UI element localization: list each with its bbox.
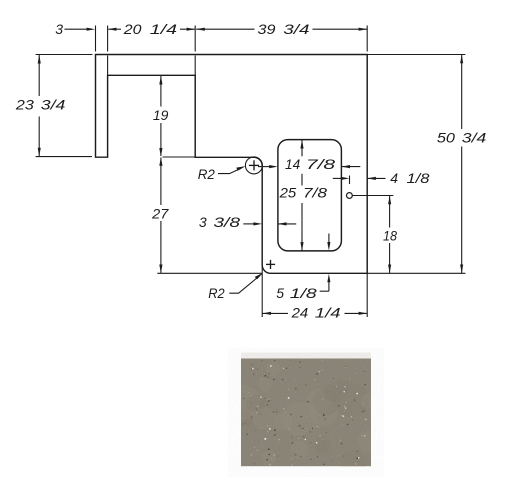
svg-text:39: 39 <box>258 21 276 37</box>
svg-text:1/4: 1/4 <box>150 21 177 37</box>
svg-text:1/8: 1/8 <box>290 285 317 301</box>
svg-text:1/4: 1/4 <box>315 305 341 321</box>
svg-text:R2: R2 <box>208 285 225 301</box>
dim 14 7/8 arrows <box>258 166 270 168</box>
svg-text:23: 23 <box>15 96 34 112</box>
dim 18 line and arrows <box>388 196 391 205</box>
material swatch <box>241 359 371 467</box>
svg-text:1/8: 1/8 <box>407 170 430 186</box>
svg-text:3: 3 <box>55 21 63 37</box>
dim 24 1/4 extension lines <box>261 266 263 317</box>
svg-text:50: 50 <box>437 130 455 146</box>
svg-text:27: 27 <box>151 205 169 221</box>
R2 fillet annotation circle <box>245 157 262 174</box>
svg-text:3/4: 3/4 <box>41 96 66 112</box>
svg-text:24: 24 <box>291 305 309 321</box>
svg-text:25: 25 <box>279 185 297 201</box>
dim 3 3/8 arrows <box>243 223 255 225</box>
dim 23 3/4 line and arrows <box>38 55 41 64</box>
bottom edge extension left (for 27 dim) <box>157 272 262 274</box>
R2 bottom fillet center cross <box>266 263 275 265</box>
dim 19/27 shared extension line at y=157 <box>163 156 196 158</box>
R2 top leader <box>218 168 241 173</box>
dim 5 1/8 arrows and leader elbow <box>328 234 330 243</box>
R2 fillet center cross <box>249 164 259 166</box>
svg-text:5: 5 <box>276 285 284 301</box>
dim 19 line and arrows <box>159 76 162 85</box>
svg-text:18: 18 <box>383 227 397 243</box>
swatch grain texture <box>241 359 371 466</box>
svg-text:7/8: 7/8 <box>306 156 336 172</box>
svg-text:4: 4 <box>390 170 398 186</box>
part outline: countertop profile <box>96 55 368 274</box>
dim 25 7/8 line and arrows <box>300 140 303 149</box>
dim 27 line and arrows <box>159 157 162 166</box>
R2 bottom leader <box>229 277 258 293</box>
faucet hole extension line <box>352 195 393 197</box>
dim 39 3/4 arrows and line <box>196 28 205 31</box>
svg-text:19: 19 <box>153 107 169 123</box>
svg-text:R2: R2 <box>198 166 215 182</box>
dim 24 1/4 line and arrows <box>262 312 271 315</box>
sink cutout rounded rectangle <box>278 140 342 251</box>
dim 20 1/4 arrows and line <box>108 28 117 31</box>
svg-text:3/8: 3/8 <box>213 214 240 230</box>
svg-text:14: 14 <box>285 156 300 172</box>
dim 23 3/4 extension lines <box>36 54 93 56</box>
material swatch light top band <box>241 353 371 360</box>
extension line at x=195.2 <box>194 26 196 52</box>
dim 4 1/8 arrows and extension stub <box>333 177 342 179</box>
svg-text:3/4: 3/4 <box>462 130 487 146</box>
svg-text:20: 20 <box>123 21 142 37</box>
dim 3 line and arrow <box>65 28 89 30</box>
dim 50 3/4 line and arrows <box>460 55 463 64</box>
extension line at x=95.5 <box>95 26 97 52</box>
swatch speckles <box>226 360 381 477</box>
faucet hole <box>347 193 353 199</box>
top edge extension right (for 50 3/4) <box>367 54 465 56</box>
extension line top right <box>366 26 368 52</box>
svg-text:3: 3 <box>199 214 207 230</box>
bottom edge extension right (for 50 3/4 and 18) <box>367 272 465 274</box>
extension line at x=107.6 <box>107 26 109 52</box>
svg-text:3/4: 3/4 <box>283 21 309 37</box>
svg-text:7/8: 7/8 <box>303 185 327 201</box>
